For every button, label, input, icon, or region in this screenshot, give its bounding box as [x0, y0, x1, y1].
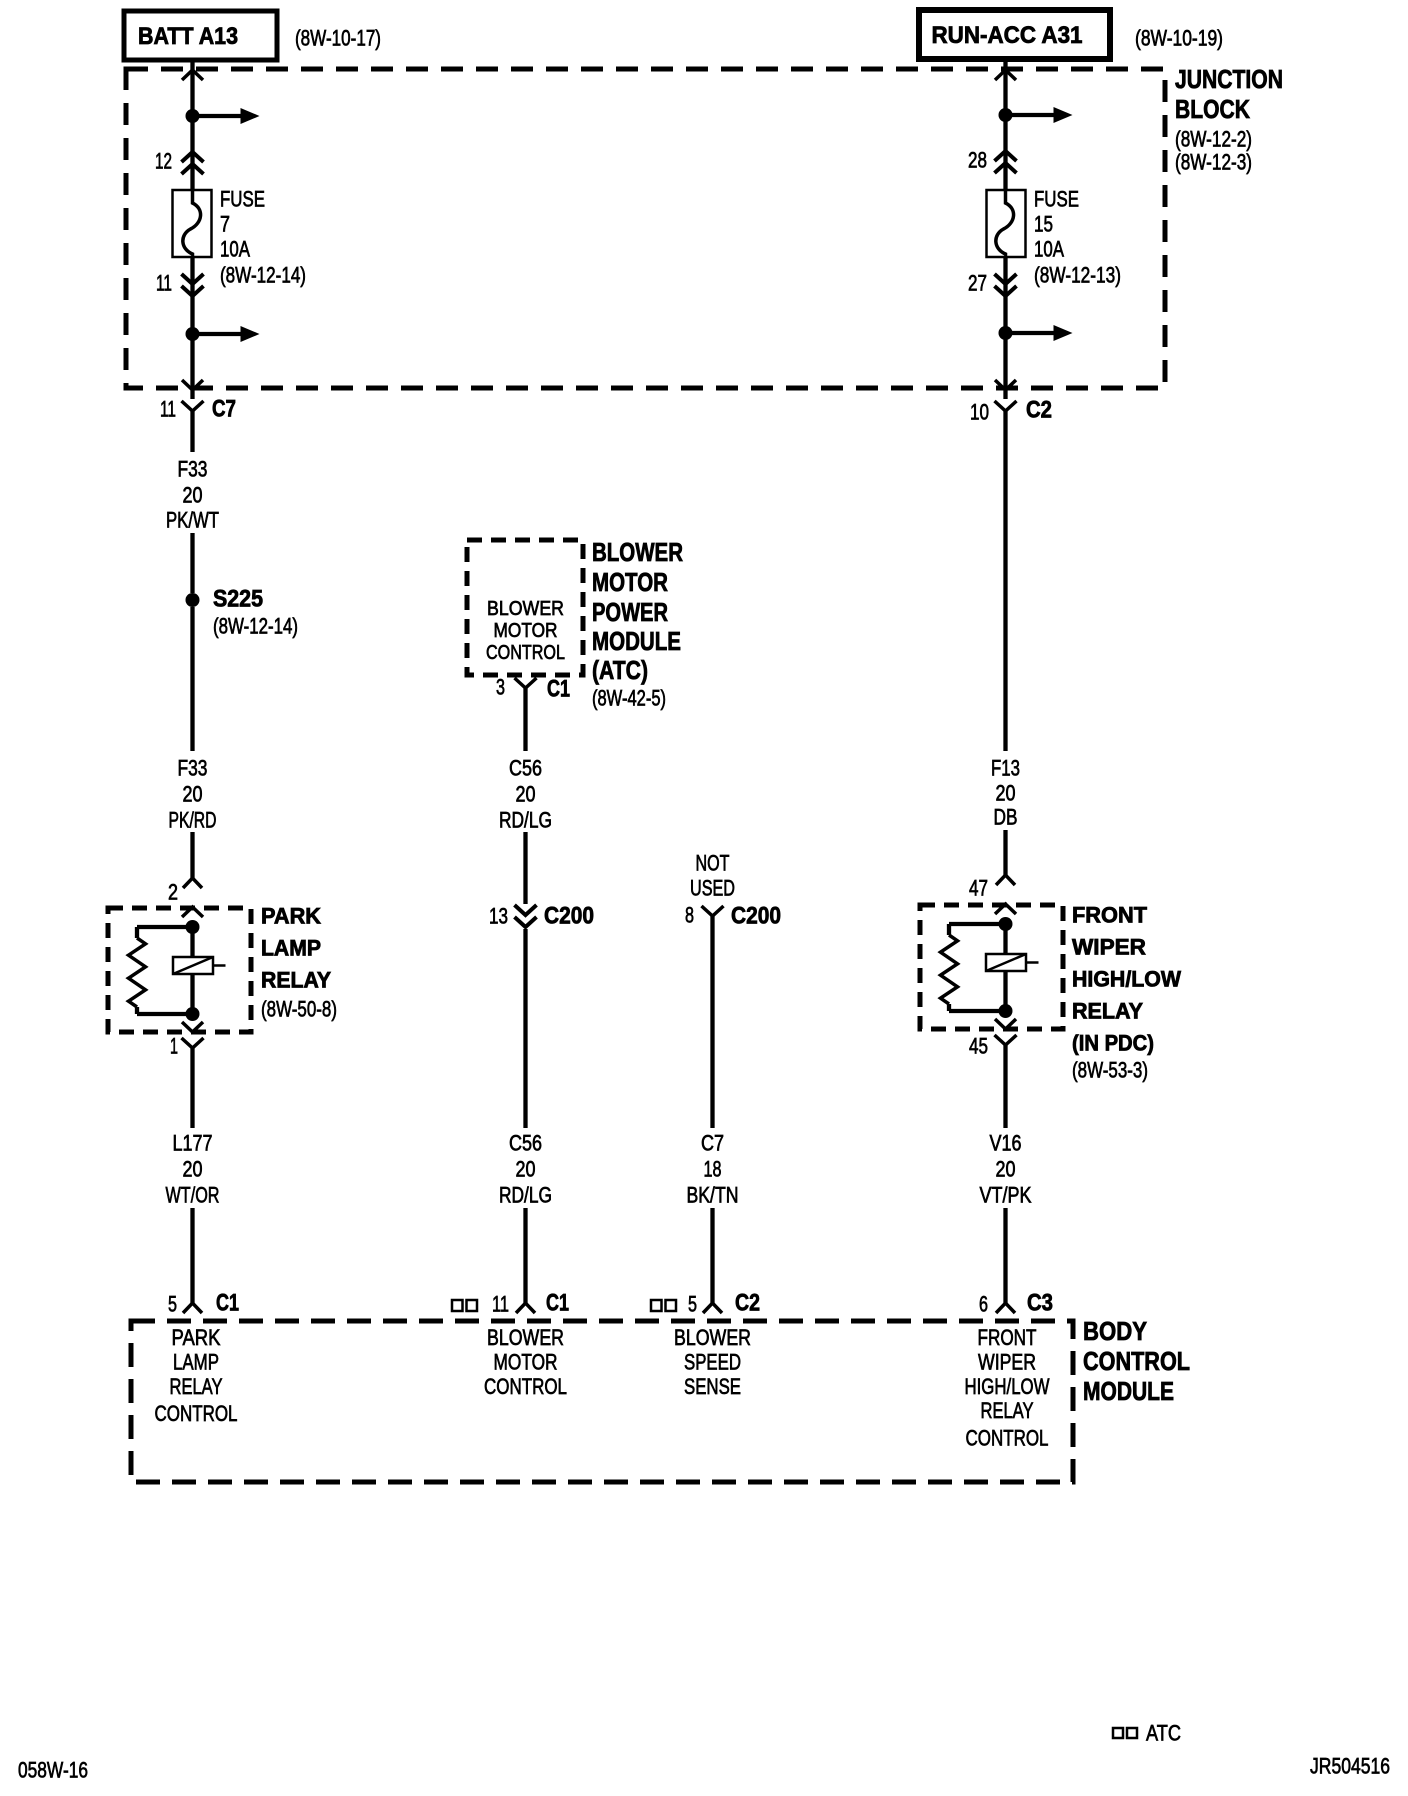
svg-text:RUN-ACC A31: RUN-ACC A31: [932, 22, 1083, 49]
svg-text:(ATC): (ATC): [592, 655, 648, 685]
svg-text:JR504516: JR504516: [1310, 1754, 1390, 1779]
svg-text:C3: C3: [1027, 1290, 1053, 1317]
svg-text:20: 20: [183, 483, 203, 508]
svg-text:L177: L177: [173, 1131, 213, 1156]
svg-text:20: 20: [183, 782, 203, 807]
svg-text:FRONT: FRONT: [978, 1325, 1037, 1350]
svg-text:F33: F33: [178, 457, 208, 482]
svg-text:47: 47: [969, 876, 988, 901]
svg-text:JUNCTION: JUNCTION: [1175, 64, 1283, 94]
svg-text:PK/RD: PK/RD: [169, 808, 217, 833]
svg-text:2: 2: [168, 880, 178, 905]
svg-text:RELAY: RELAY: [981, 1398, 1034, 1423]
svg-text:20: 20: [996, 1157, 1016, 1182]
svg-text:(8W-12-3): (8W-12-3): [1175, 150, 1252, 175]
svg-text:USED: USED: [690, 876, 735, 901]
svg-text:WT/OR: WT/OR: [166, 1183, 220, 1208]
svg-text:BLOWER: BLOWER: [487, 1325, 564, 1350]
svg-text:VT/PK: VT/PK: [980, 1183, 1032, 1208]
svg-text:FRONT: FRONT: [1072, 903, 1148, 928]
svg-text:27: 27: [968, 271, 987, 296]
svg-text:BK/TN: BK/TN: [687, 1183, 739, 1208]
svg-text:C7: C7: [212, 396, 236, 423]
svg-text:10A: 10A: [1034, 237, 1064, 262]
svg-text:11: 11: [160, 397, 176, 422]
svg-text:(8W-53-3): (8W-53-3): [1072, 1058, 1148, 1083]
svg-text:BLOWER: BLOWER: [592, 537, 683, 567]
svg-text:CONTROL: CONTROL: [1083, 1346, 1190, 1376]
svg-text:18: 18: [704, 1157, 722, 1182]
svg-text:3: 3: [496, 675, 505, 700]
svg-text:10: 10: [970, 400, 989, 425]
svg-text:C2: C2: [735, 1290, 760, 1317]
svg-text:(8W-12-2): (8W-12-2): [1175, 127, 1252, 152]
svg-text:13: 13: [489, 904, 508, 929]
svg-text:BLOWER: BLOWER: [674, 1325, 751, 1350]
svg-text:F13: F13: [991, 756, 1020, 781]
svg-text:NOT: NOT: [696, 851, 730, 876]
svg-text:F33: F33: [178, 756, 208, 781]
svg-text:(8W-50-8): (8W-50-8): [261, 997, 337, 1022]
svg-text:5: 5: [688, 1292, 697, 1317]
svg-text:20: 20: [996, 781, 1016, 806]
svg-text:DB: DB: [994, 805, 1018, 830]
svg-text:1: 1: [170, 1034, 178, 1059]
svg-text:CONTROL: CONTROL: [486, 642, 565, 664]
svg-text:MODULE: MODULE: [1083, 1376, 1174, 1406]
svg-text:10A: 10A: [220, 237, 250, 262]
svg-text:(IN PDC): (IN PDC): [1072, 1031, 1154, 1056]
svg-text:RELAY: RELAY: [170, 1374, 223, 1399]
svg-text:BATT A13: BATT A13: [138, 23, 238, 50]
svg-text:20: 20: [516, 1157, 536, 1182]
svg-text:20: 20: [183, 1157, 203, 1182]
svg-text:WIPER: WIPER: [978, 1349, 1036, 1374]
svg-text:(8W-10-19): (8W-10-19): [1135, 26, 1223, 51]
svg-text:POWER: POWER: [592, 597, 668, 627]
svg-text:(8W-12-14): (8W-12-14): [213, 614, 298, 639]
svg-text:CONTROL: CONTROL: [484, 1374, 567, 1399]
svg-text:RD/LG: RD/LG: [499, 1183, 552, 1208]
svg-text:C7: C7: [701, 1131, 724, 1156]
svg-text:RELAY: RELAY: [261, 968, 331, 993]
svg-text:20: 20: [516, 782, 536, 807]
svg-text:SPEED: SPEED: [684, 1349, 741, 1374]
svg-text:CONTROL: CONTROL: [966, 1426, 1049, 1451]
svg-text:S225: S225: [213, 586, 263, 613]
svg-text:HIGH/LOW: HIGH/LOW: [1072, 967, 1181, 992]
svg-text:C2: C2: [1026, 397, 1052, 424]
svg-text:LAMP: LAMP: [261, 936, 321, 961]
svg-text:MODULE: MODULE: [592, 626, 681, 656]
svg-text:C1: C1: [546, 1290, 569, 1317]
svg-text:RELAY: RELAY: [1072, 999, 1143, 1024]
svg-text:BLOWER: BLOWER: [487, 598, 564, 620]
svg-text:C200: C200: [731, 903, 781, 930]
svg-text:C56: C56: [509, 756, 542, 781]
svg-text:HIGH/LOW: HIGH/LOW: [965, 1374, 1050, 1399]
svg-text:C200: C200: [544, 903, 594, 930]
svg-text:12: 12: [155, 149, 172, 174]
svg-text:MOTOR: MOTOR: [494, 1349, 558, 1374]
svg-text:ATC: ATC: [1146, 1721, 1181, 1746]
svg-text:8: 8: [685, 903, 694, 928]
svg-text:(8W-42-5): (8W-42-5): [592, 686, 666, 711]
svg-text:MOTOR: MOTOR: [494, 620, 558, 642]
svg-text:C56: C56: [509, 1131, 542, 1156]
svg-text:11: 11: [492, 1292, 509, 1317]
svg-text:7: 7: [220, 212, 230, 237]
svg-text:PARK: PARK: [172, 1325, 221, 1350]
svg-text:6: 6: [979, 1292, 988, 1317]
svg-text:15: 15: [1034, 212, 1053, 237]
svg-text:V16: V16: [990, 1131, 1022, 1156]
svg-text:BODY: BODY: [1083, 1316, 1147, 1346]
svg-text:11: 11: [156, 271, 172, 296]
svg-text:MOTOR: MOTOR: [592, 567, 668, 597]
svg-text:(8W-12-14): (8W-12-14): [220, 263, 306, 288]
svg-text:RD/LG: RD/LG: [499, 808, 552, 833]
svg-text:CONTROL: CONTROL: [155, 1401, 238, 1426]
svg-text:28: 28: [968, 148, 987, 173]
svg-text:BLOCK: BLOCK: [1175, 94, 1250, 124]
svg-text:058W-16: 058W-16: [18, 1758, 88, 1783]
svg-text:(8W-12-13): (8W-12-13): [1034, 263, 1121, 288]
svg-text:C1: C1: [216, 1290, 239, 1317]
svg-text:5: 5: [168, 1292, 177, 1317]
svg-text:C1: C1: [547, 676, 570, 703]
svg-text:FUSE: FUSE: [1034, 187, 1079, 212]
svg-text:FUSE: FUSE: [220, 187, 265, 212]
svg-text:(8W-10-17): (8W-10-17): [295, 26, 381, 51]
svg-text:LAMP: LAMP: [173, 1349, 219, 1374]
svg-text:PARK: PARK: [261, 904, 321, 929]
svg-text:SENSE: SENSE: [684, 1374, 741, 1399]
svg-text:45: 45: [969, 1034, 988, 1059]
svg-text:PK/WT: PK/WT: [166, 508, 219, 533]
svg-text:WIPER: WIPER: [1072, 935, 1146, 960]
